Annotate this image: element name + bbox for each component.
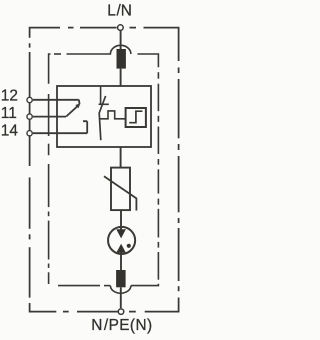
svg-text:14: 14 — [1, 123, 19, 140]
svg-text:12: 12 — [1, 88, 18, 105]
svg-text:N/PE(N): N/PE(N) — [91, 317, 152, 334]
svg-text:L/N: L/N — [107, 3, 132, 20]
svg-text:11: 11 — [1, 105, 17, 122]
